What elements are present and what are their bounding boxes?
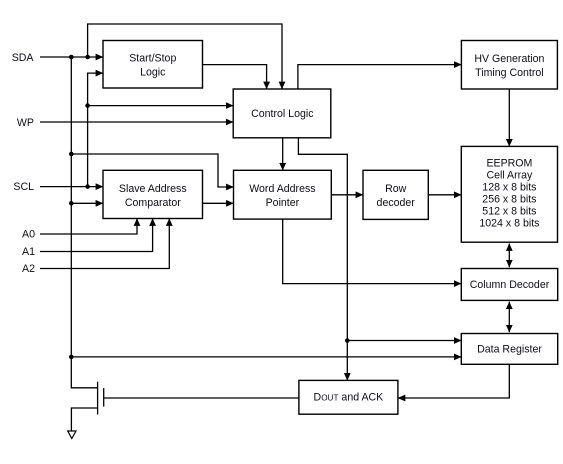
block Data Register — [461, 334, 557, 365]
svg-text:Slave Address: Slave Address — [119, 183, 187, 195]
block Row decoder — [363, 170, 428, 219]
svg-text:Data Register: Data Register — [477, 343, 542, 355]
wire Column Decoder to Data Register bidirectional — [508, 302, 510, 333]
wire Control Logic to Word Address Pointer — [282, 138, 284, 171]
wire branch to Data Register first input — [347, 340, 461, 342]
wire A0 input — [40, 219, 137, 235]
svg-text:A2: A2 — [22, 263, 35, 275]
wire Start/Stop output to Control Logic top — [203, 65, 267, 89]
wire SDA branch to Word Address Pointer — [71, 154, 233, 187]
wire SCL rail up to Start/Stop Logic second input — [88, 73, 103, 187]
wire transistor source to ground — [71, 408, 97, 431]
svg-text:SDA: SDA — [12, 52, 35, 64]
wire WP input to Control Logic — [40, 121, 233, 123]
block Column Decoder — [461, 269, 557, 301]
block Control Logic — [233, 89, 331, 138]
svg-text:A0: A0 — [22, 228, 35, 240]
svg-text:512 x 8 bits: 512 x 8 bits — [482, 206, 536, 218]
junction dot branch to Data Register first input — [345, 338, 350, 343]
wire Data Register to DOUT and ACK — [398, 364, 509, 398]
svg-text:1024 x 8 bits: 1024 x 8 bits — [479, 218, 539, 230]
block Word Address Pointer — [234, 170, 332, 219]
wire SDA rail branch to Data Register second input — [71, 356, 461, 358]
svg-text:Word Address: Word Address — [249, 183, 315, 195]
junction dot SCL at rail 2 — [85, 184, 90, 189]
wire Slave Address Comparator to Word Address Pointer — [203, 202, 234, 204]
svg-text:Row: Row — [385, 183, 407, 195]
svg-text:256 x 8 bits: 256 x 8 bits — [482, 194, 536, 206]
wire SDA up and over to Control Logic top — [88, 24, 282, 89]
svg-text:Column Decoder: Column Decoder — [470, 279, 550, 291]
junction dot SDA branch to comparator — [69, 201, 74, 206]
wire SDA input to Start/Stop Logic — [40, 56, 103, 58]
wire SDA branch to Slave Address Comparator — [71, 202, 103, 204]
block EEPROM Cell Array — [461, 146, 557, 242]
block Slave Address Comparator — [103, 170, 203, 218]
wire Row decoder to EEPROM array — [428, 194, 461, 196]
junction dot SDA at rail 1 — [69, 55, 74, 60]
svg-text:Control Logic: Control Logic — [251, 108, 314, 120]
svg-text:Pointer: Pointer — [266, 197, 300, 209]
wire Control Logic to HV Generation — [298, 65, 462, 89]
junction dot SDA at rail 2 — [85, 55, 90, 60]
transistor Q1 output driver — [98, 382, 104, 415]
wire DOUT and ACK to transistor gate — [104, 397, 299, 399]
svg-text:HV Generation: HV Generation — [474, 53, 544, 65]
block Start/Stop Logic — [103, 41, 203, 89]
wire Word Address Pointer to Column Decoder — [283, 219, 462, 284]
svg-text:decoder: decoder — [377, 197, 416, 209]
junction dot SDA branch to Data Register — [69, 355, 74, 360]
wire HV Generation to EEPROM array — [508, 89, 510, 146]
wire Control Logic down to DOUT and ACK — [298, 138, 347, 381]
block HV Generation Timing Control — [461, 41, 557, 90]
svg-text:128 x 8 bits: 128 x 8 bits — [482, 182, 536, 194]
wire A1 input — [40, 219, 153, 252]
wire SDA vertical rail to output transistor drain — [71, 57, 97, 388]
svg-text:SCL: SCL — [13, 181, 34, 193]
block DOUT and ACK — [299, 380, 398, 414]
svg-text:Comparator: Comparator — [125, 197, 181, 209]
wire A2 input — [40, 219, 169, 269]
svg-text:Logic: Logic — [140, 67, 166, 79]
wire EEPROM to Column Decoder bidirectional — [508, 244, 510, 268]
wire SCL branch to Control Logic — [88, 105, 234, 107]
junction dot SCL branch to Control Logic — [85, 103, 90, 108]
svg-text:WP: WP — [17, 117, 34, 129]
junction dot SDA branch to Word Address Pointer — [69, 152, 74, 157]
wire Word Address Pointer to Row decoder — [331, 194, 363, 196]
svg-text:Timing Control: Timing Control — [475, 67, 544, 79]
svg-text:Cell Array: Cell Array — [486, 170, 533, 182]
ground — [68, 431, 76, 439]
wire SCL input to Slave Address Comparator — [40, 186, 103, 188]
svg-text:DOUT and ACK: DOUT and ACK — [314, 392, 384, 404]
svg-text:A1: A1 — [22, 246, 35, 258]
svg-text:Start/Stop: Start/Stop — [129, 53, 176, 65]
svg-text:EEPROM: EEPROM — [486, 158, 532, 170]
